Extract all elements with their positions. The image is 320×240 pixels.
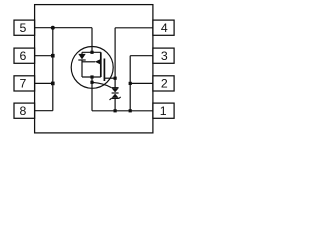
svg-text:3: 3 [161,49,168,63]
svg-text:1: 1 [160,104,167,118]
svg-text:8: 8 [19,104,26,118]
svg-text:2: 2 [161,77,168,91]
svg-text:6: 6 [19,49,26,63]
svg-text:4: 4 [161,21,168,35]
svg-text:7: 7 [19,77,26,91]
svg-text:5: 5 [19,21,26,35]
